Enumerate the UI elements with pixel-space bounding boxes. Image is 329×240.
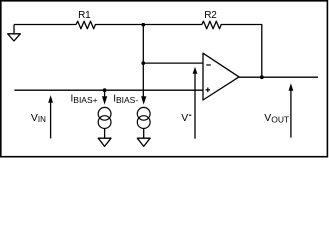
svg-text:V: V — [181, 112, 188, 124]
svg-text:IBIAS-: IBIAS- — [113, 94, 138, 106]
svg-text:VIN: VIN — [31, 112, 46, 124]
svg-text:R1: R1 — [78, 10, 91, 21]
svg-text:VOUT: VOUT — [264, 112, 289, 124]
svg-text:IBIAS+: IBIAS+ — [71, 94, 98, 106]
svg-text:R2: R2 — [204, 10, 217, 21]
